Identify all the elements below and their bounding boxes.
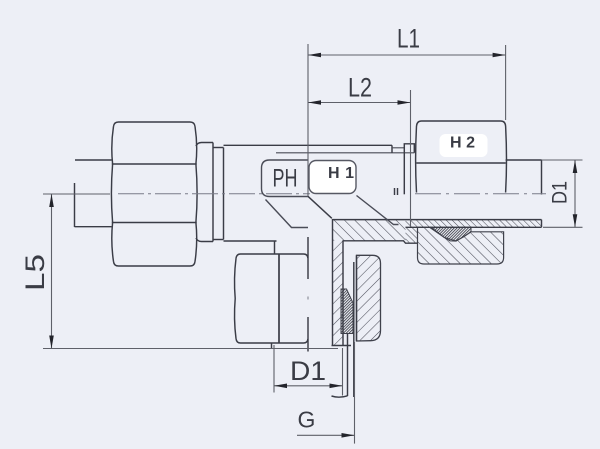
dimension G extension [354, 342, 356, 444]
washer ring outline [196, 143, 213, 147]
dimension D1 bottom extension left [273, 345, 275, 393]
dimension G line [297, 434, 355, 436]
washer ridge between body and H2 nut [404, 144, 414, 153]
section hatch: body end chunk under tube band [406, 227, 418, 243]
H1 label box [309, 161, 356, 194]
svg-text:L5: L5 [20, 254, 50, 291]
dimension D1 right extension bottom [543, 226, 583, 228]
left tube end edge [74, 183, 76, 227]
svg-text:H 1: H 1 [328, 165, 354, 182]
body end step vertical [391, 145, 393, 153]
strip left edge [332, 219, 334, 346]
H2 label box [440, 134, 488, 157]
L2 arrows [308, 100, 321, 105]
section hatch: branch ferrule dense wedge [341, 289, 353, 334]
body step line near branch [276, 152, 414, 154]
L5 arrows [49, 194, 54, 207]
left nut facet line upper [112, 163, 197, 165]
right tube top [506, 159, 542, 161]
section hatch: H2 nut lower half block [418, 227, 504, 264]
band top edge [332, 219, 542, 221]
body shoulder line [392, 147, 404, 149]
branch tube left edge [274, 241, 276, 255]
dimension L1 line [308, 54, 506, 56]
bottom nut outline [236, 254, 308, 259]
thin band bottom edge [406, 226, 542, 228]
dimension L2 line [308, 102, 411, 104]
branch tube verticals above nut [307, 237, 309, 255]
dimension L1 extension right [505, 45, 507, 120]
dimension D1 bottom extension right [342, 348, 344, 396]
arrowheads [49, 53, 577, 438]
svg-text:L1: L1 [397, 24, 420, 54]
below-nut ticks [271, 343, 273, 349]
dimension L5 extension bottom [43, 348, 338, 350]
left tube bottom [75, 226, 112, 228]
section hatch: branch nut right-half block [357, 255, 381, 341]
body small end dashes [394, 188, 396, 195]
band bottom edge and step [343, 241, 418, 243]
L1 arrows [308, 53, 321, 58]
body top edge [224, 144, 393, 146]
dimension L2 extension right [410, 90, 412, 227]
PH label box [262, 160, 309, 228]
PH leader line [266, 200, 309, 228]
branch corner chamfer [308, 196, 332, 218]
section hatch: branch stud wall strip (vertical) [333, 241, 344, 346]
left nut facet line lower [112, 222, 197, 224]
D1 bottom arrows [274, 384, 287, 389]
bottom nut facet line [278, 255, 280, 343]
dimension D1 bottom line [274, 385, 343, 387]
H1 leader line [357, 196, 399, 225]
band right closure at tube end [541, 220, 543, 228]
strip right edge [342, 241, 344, 345]
H2 nut facet line [416, 162, 506, 164]
tube end curve at bottom [332, 396, 348, 397]
section hatch: lower tube wall thin band (dense) [406, 220, 542, 228]
svg-text:D1: D1 [290, 356, 326, 386]
svg-text:PH: PH [273, 165, 298, 193]
stud thread lines below [347, 334, 349, 397]
section hatch: body arm wall band (horizontal, coarse) [333, 220, 406, 241]
svg-text:G: G [298, 407, 316, 433]
washer edge down to centerline [403, 153, 405, 195]
left nut outline [114, 122, 196, 127]
svg-text:L2: L2 [348, 73, 372, 103]
left tube top [75, 159, 112, 161]
svg-text:D1: D1 [549, 181, 572, 204]
dimension D1 right line [574, 160, 576, 227]
body bottom edge [224, 240, 277, 242]
dimension L5 line [51, 194, 53, 349]
branch nut section-cut edge segments [307, 255, 309, 280]
dimension D1 right extension top [542, 159, 583, 161]
centerline vertical branch dot [307, 297, 309, 300]
centerline horizontal dash-dot [118, 194, 546, 300]
strip bottom edge [332, 345, 352, 347]
right tube end edge [541, 160, 543, 195]
D1 right arrows [573, 160, 578, 173]
dimension L5 extension top (centerline left) [43, 193, 110, 195]
G arrow [342, 433, 355, 438]
svg-text:H 2: H 2 [450, 135, 475, 152]
section hatch: right ferrule dense wedge [430, 227, 472, 241]
dimension L1 extension left (branch axis) [307, 44, 309, 196]
H2 nut outline [417, 121, 506, 126]
